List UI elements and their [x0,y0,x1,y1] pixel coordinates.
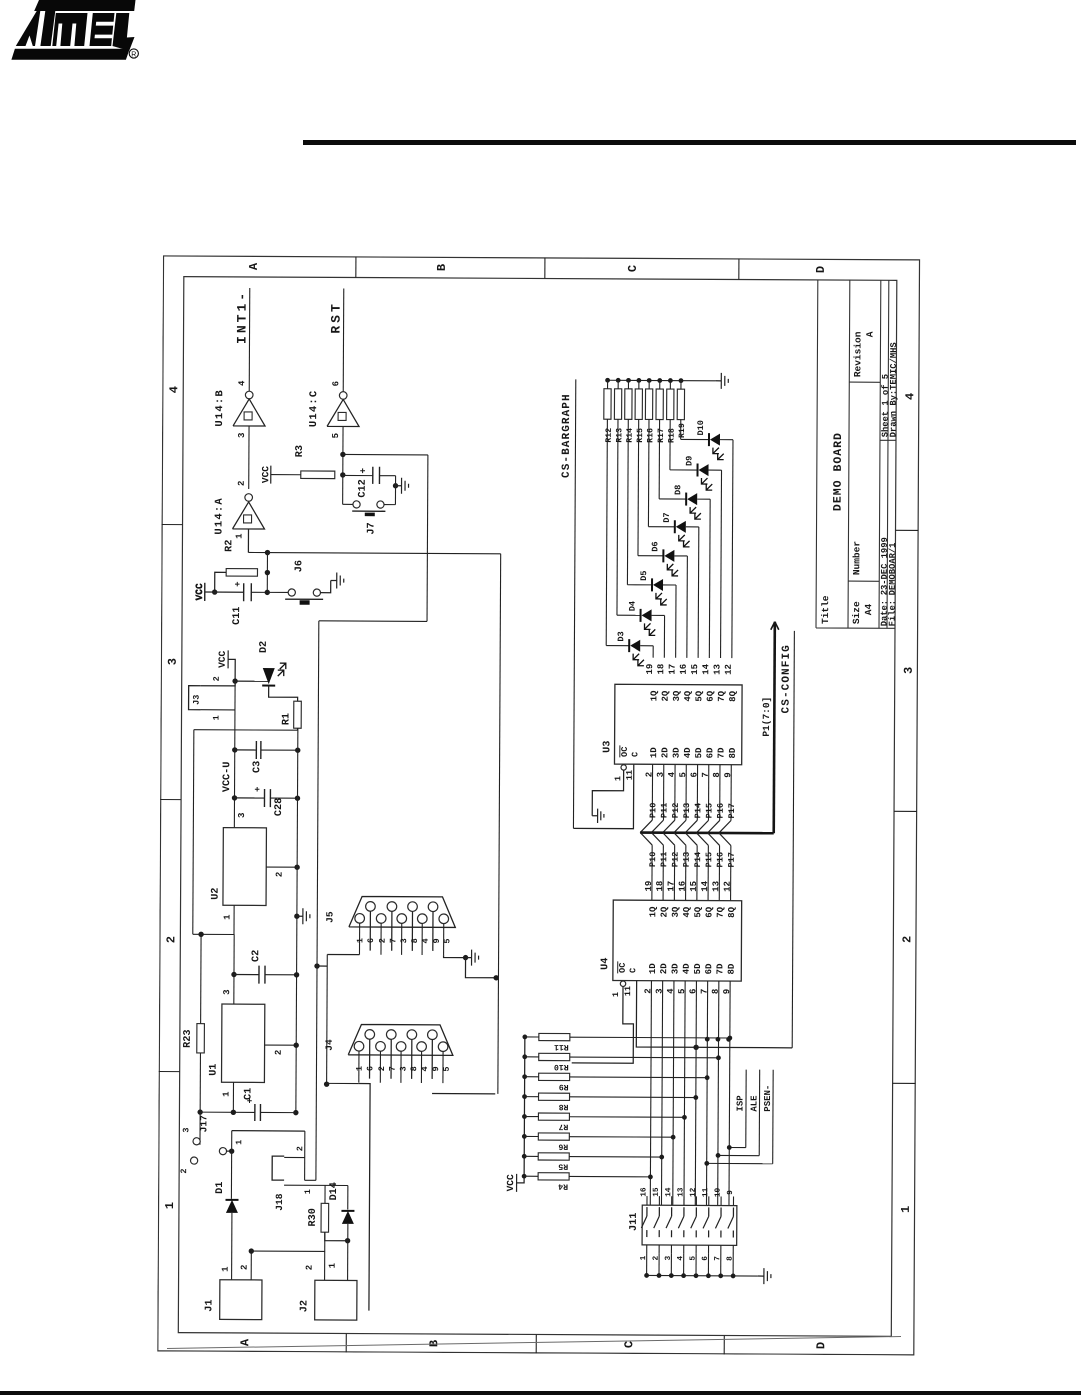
wire U4 OC control [572,986,634,1063]
resistor R2 [226,569,257,577]
inverter U14:B [233,399,265,426]
wire net to J17 pin3 [199,1112,201,1145]
wire J1 pin2 to J2 pin2 [251,1250,324,1252]
junction bargraph rail [657,378,662,383]
inverter U14:C [327,399,359,426]
bus entries U3 side [640,820,652,833]
bus entries U4 side [640,833,652,846]
capacitor C11 [205,591,244,593]
junction J5 ground net [463,955,468,960]
wire J4 pin1 to long v211 line [358,1084,370,1311]
wire R3 to VCC [271,474,301,476]
junction shield at long wire [493,975,498,980]
junction VCC node [232,678,237,683]
wire CS-BARGRAPH to U3 pin11 [573,764,633,829]
jumper J18 [272,1156,284,1180]
junction J11 ground rail [681,1273,686,1278]
U4 input row wires to J11 [650,981,651,1205]
wire v168 run [326,954,329,1084]
junction VCC-U at C3 [232,747,237,752]
LED D5 [651,578,653,591]
schematic outer border frame [158,256,920,1355]
junction C1 line at U1 pin1 [231,1110,236,1115]
wire J5 shield net down [465,958,496,978]
wire U14:A input net down to row 106 [247,529,249,552]
junction VCC rail at R10 [522,1054,527,1059]
resistor R8 [539,1093,570,1100]
junction RST at R3 [340,472,345,477]
junction J11 ground rail [718,1273,723,1278]
LED D7 [674,520,676,533]
wire VCC-U rail U2 pin3 to VCC node [233,681,236,828]
wire net RST [342,288,345,391]
connector J1 [220,1280,262,1320]
wire R23 link to riser [200,934,202,1023]
switch J11 left pin stubs [646,1245,648,1253]
wire VCC rail R4-R11 [517,1037,525,1183]
zone tick marks top margin [159,1071,180,1073]
resistor R30 [321,1203,329,1232]
bottom horizontal rule [0,1391,1081,1395]
diode D1 [226,1200,238,1213]
wire C12 loop horizontal [426,455,429,621]
LED D8 [685,493,687,506]
wire U14:C input down to R3 node [343,453,428,455]
wire D3 cathode to resistor R12 [606,419,607,645]
top horizontal rule [303,140,1076,145]
junction J11 ground rail [706,1273,711,1278]
LED D2 [235,680,269,682]
junction v168 at L4 [317,965,327,967]
junction J11 ground rail [731,1274,736,1279]
rotated schematic sheet [157,255,921,1356]
junction J11 ground rail [669,1273,674,1278]
wire D8 anode to U3 pin [697,498,710,500]
wire J1 pin2 [250,1251,252,1280]
capacitor C12 inline [343,474,373,476]
junction v168 at J4 pin1 drop [324,1081,329,1086]
resistor R9 [539,1073,570,1080]
LED D3 [628,639,630,652]
wire J3 pin1 to VCC-U rail [201,709,236,711]
junction R9 at row [705,1075,710,1080]
ground at C12 [396,485,402,487]
wire D10 anode to U3 pin [720,439,733,441]
wire R30 right to J18 pin1 riser [324,1185,326,1203]
wire D6 anode to U3 pin [674,555,687,557]
junction ground rail C3 [295,748,300,753]
wire U2 pin1 [233,905,235,934]
capacitor C2 [234,973,259,975]
junction J11 ground rail [657,1273,662,1278]
wire J5 pin5 to ground [444,955,466,958]
ATMEL logo [16,0,136,46]
junction bargraph rail [626,378,631,383]
pushbutton J6 [288,589,295,596]
title block Size/Number/Revision dividers [848,382,896,581]
capacitor C3 [235,749,257,751]
net PSEN- line [772,1070,774,1164]
net ALE line [758,1070,760,1156]
wire net L1 gate input run [267,553,500,554]
connector J5 shell [349,896,456,927]
IC U3 latch [614,684,742,764]
resistor R4 [538,1173,569,1180]
junction VCC rail at R8 [522,1094,527,1099]
wire ground segment [394,476,396,505]
bus P1 arrow end [771,622,779,630]
ground at J5 [466,957,472,959]
junction bargraph rail [679,378,684,383]
junction R4 at row [648,1174,653,1179]
wire J2 pin2 [324,1232,326,1280]
junction RST at C12 loop [340,452,345,457]
net CS-BARGRAPH line [573,379,575,828]
resistor R10 [539,1053,570,1060]
junction ground rail at C2 [294,972,299,977]
wire D7 anode to U3 pin [686,526,699,528]
switch J11 blades [646,1207,648,1216]
wire J17 pin1 to D1 net [227,1150,232,1152]
LED D4 [640,609,642,622]
wire D3 anode to U3 pin [640,645,653,647]
IC U1 oscillator [222,1004,265,1082]
IC U4 latch [613,900,742,981]
ground at bargraph rail [715,380,721,382]
U3 OC bubble [621,765,626,770]
zone tick marks bottom margin [893,1082,916,1084]
junction bargraph rail [647,378,652,383]
wire L4 rise at J18 [305,1179,316,1181]
wire C12 to ground segment [379,475,395,477]
junction bargraph rail [616,378,621,383]
wire U4 C pin to CS-CONFIG [636,981,792,1048]
ground at J6 [331,579,337,581]
junction bargraph rail [636,378,641,383]
resistor R23 [197,1024,205,1053]
junction ground rail U2 pin2 [294,865,299,870]
wire S1 top rail [193,730,194,935]
wire D7 cathode to resistor R16 [647,419,650,526]
wire ALE drop [718,1154,759,1156]
wire D1 to J1 pin1 [231,1213,233,1280]
wire U3 OC to ground [592,770,623,816]
bargraph ground rail [608,379,716,382]
wire J11 common ground rail [647,1274,758,1277]
diode D14 [342,1211,354,1224]
wire D2 to R1 [268,667,270,669]
junction VCC rail at R11 [522,1035,527,1040]
ground at U1/U2 rail [297,915,303,917]
junction R8 at row [693,1095,698,1100]
zone tick marks right margin [355,257,357,278]
wire J18 pin1 down to D14 cathode [284,1184,348,1186]
ground at U3 OC [592,815,597,817]
wire U2 pin2 to ground rail [266,866,297,868]
wire R30 left to D14 net [325,1232,348,1241]
resistor R6 [538,1133,569,1140]
wire R23 to J17 node [199,1053,201,1112]
wire D5 cathode to resistor R14 [626,419,629,584]
wire J4 pin1 drop [327,1082,359,1084]
junction J11 ground rail [694,1273,699,1278]
wire D10 cathode to resistor R19 [680,420,682,440]
junction riser at R23 link [198,932,203,937]
wire R1 to S2 riser [296,728,298,730]
wire J4 pin9 to L2 [432,1093,495,1095]
IC U2 oscillator [223,828,267,906]
junction VCC-U at C28 [232,795,237,800]
wire J6 to ground [320,580,330,592]
connector J4 shell [348,1024,453,1055]
switch J11 box [642,1205,737,1245]
capacitor C28 [234,797,264,799]
junction VCC rail at R4 [522,1174,527,1179]
junction VCC rail R2 tap [212,589,217,594]
junction D14 net [345,1238,350,1243]
wire U1 pin2 to ground rail [265,1044,297,1046]
resistor R3 [301,471,335,479]
junction J17 pin1 [229,1148,234,1153]
resistor R5 [538,1153,569,1160]
wire C12 loop bottom [319,620,427,623]
U4 OC bubble [620,981,625,986]
junction C12 ground segment [393,483,398,488]
junction R5 at row [659,1155,664,1160]
wire J3 pin2 to VCC node [201,681,235,686]
wire D5 anode to U3 pin [663,584,676,586]
wire D4 cathode to resistor R13 [617,419,618,615]
wire J17 drop with C1 inline [200,1111,255,1113]
junction U1 pin3 net at C2 [231,972,236,977]
junction ground rail at C1 line [293,1110,298,1115]
jumper J3 [189,686,201,710]
schematic inner border frame [178,277,897,1337]
wire RST line to J7 [342,475,344,504]
resistor R7 [538,1113,569,1120]
LED D10 [708,433,710,446]
wire J18 pin2 net [304,1131,306,1180]
wire J5 pin1 jog to v168 run [327,953,359,955]
junction bargraph rail [605,378,610,383]
wire U1 pin1 to J17 drop [232,1082,234,1112]
connector J4 pin circles [354,1041,364,1051]
junction ground rail at gnd symbol [294,914,299,919]
connector J5 pin circles [355,914,365,924]
wire PSEN- drop [707,1162,773,1164]
LED D9 [696,464,698,477]
junction dots ISP column [705,1037,710,1042]
junction J11 ground rail [644,1273,649,1278]
connector J2 [315,1280,357,1320]
wire J18 pin2 to net riser [284,1156,304,1158]
wire J7 bottom circle to ground segment [384,504,395,506]
junction VCC rail at R9 [522,1074,527,1079]
ATMEL logo [8,0,142,67]
wire D9 cathode to resistor R18 [669,420,671,470]
wire D1/J17 net [230,1131,232,1199]
wire U2 pin1 riser [193,933,234,935]
resistor drop wires to D rows [570,1036,730,1039]
wire ground rail [296,728,298,1112]
inverter U14:A [233,502,265,529]
net CS-CONFIG line [792,631,794,1048]
wire D4 anode to U3 pin [652,614,665,616]
wire net INT1- [248,288,251,391]
resistor R1 [294,701,302,728]
ground at J11 [758,1275,764,1277]
U4 input wires from bus [651,845,653,900]
wire D8 cathode to resistor R17 [658,420,660,499]
junction bargraph rail [668,378,673,383]
junction U14:A input with R2 link [265,550,270,555]
junction VCC rail at R7 [522,1114,527,1119]
resistor network R12-R19 bodies [604,389,611,420]
junction R2 bottom [265,570,270,575]
junction ground rail C28 [295,796,300,801]
wire R2 top to VCC rail [215,572,227,592]
bus P1 vertical [640,831,773,834]
junction J1 pin2 net [249,1248,254,1253]
zone tick marks left margin [345,1333,347,1352]
junction R7 at row [682,1115,687,1120]
switch J11 right pin stubs [646,1196,648,1205]
LED D6 [662,549,664,562]
wire S2 riser R1 to top rail [194,729,298,732]
pushbutton J7 [343,503,353,505]
U3 input wires to P1 bus [651,764,653,820]
junction R11 at row [727,1036,732,1041]
junction ground rail U1 pin2 [293,1043,298,1048]
wire net L2 horizontal run [498,554,501,1094]
junction VCC rail at R5 [522,1154,527,1159]
bus P1 horizontal [774,622,775,833]
wire D14 to J2 pin1 [347,1224,349,1280]
wire U14:B input to U14:A output [248,426,250,489]
wire D9 anode to U3 pin [709,469,722,471]
wire U1 pin3 net to U2 pin1 riser [233,934,235,1004]
resistor R11 [539,1033,570,1040]
wire R2 bottom link [266,553,268,593]
junction R6 at row [671,1135,676,1140]
title block outline [816,280,897,628]
capacitor C1 [254,1104,256,1121]
junction C11 rail at R2 bottom link [265,590,270,595]
wire D6 cathode to resistor R15 [637,419,640,555]
net ISP line [745,1070,747,1148]
junction R10 at row [716,1055,721,1060]
junction J17 node at C1 branch [197,1109,202,1114]
jumper J17 pins [193,1138,200,1145]
wire J17 to J18 riser [232,1130,305,1132]
connector J5 pin leads [358,923,360,954]
wire ISP drop [729,1146,745,1148]
junction CS-CONFIG at row 5D [693,1045,698,1050]
connector J4 pin leads [358,1051,360,1083]
wire net L4 reset run [316,621,319,1180]
junction VCC rail at R6 [522,1134,527,1139]
